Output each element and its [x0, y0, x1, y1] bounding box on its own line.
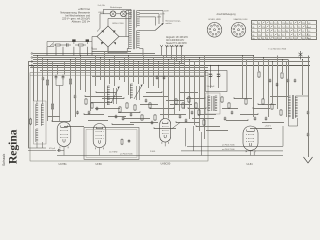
- transformer Tr1 core: [133, 10, 134, 49]
- svg-text:6: 6: [236, 36, 237, 38]
- resistor R11: [175, 98, 177, 105]
- resistor R18: [281, 72, 283, 79]
- svg-text:85: 85: [266, 35, 268, 37]
- resistor R24: [198, 109, 200, 116]
- svg-text:10,7 MHz: 10,7 MHz: [109, 152, 118, 154]
- tube V1 UCH81: [57, 122, 71, 148]
- wire bottom line 3: [57, 154, 283, 156]
- capacitor C29: [128, 139, 131, 143]
- svg-text:P-401: P-401: [150, 151, 156, 153]
- capacitor C12: [151, 121, 154, 125]
- capacitor C30: [57, 149, 62, 152]
- svg-text:170: 170: [282, 23, 285, 25]
- resistor R16: [228, 102, 230, 109]
- wire left risers: [29, 62, 34, 149]
- wire bridge top arm: [108, 19, 131, 27]
- capacitor C2 block: [72, 39, 75, 42]
- svg-text:UL84: UL84: [247, 163, 254, 166]
- svg-text:Us: Us: [252, 31, 254, 33]
- wire Tr1 sec bottom: [139, 49, 143, 56]
- svg-text:an P402 7006: an P402 7006: [222, 149, 235, 151]
- arrow output: [304, 157, 313, 163]
- svg-text:Skala 87,5-100 MHz: Skala 87,5-100 MHz: [166, 43, 188, 45]
- wire bus heater b: [33, 53, 155, 55]
- wire bus aux a: [30, 67, 208, 69]
- resistor R5: [119, 106, 121, 113]
- svg-text:2,1: 2,1: [294, 31, 296, 33]
- svg-text:170: 170: [262, 27, 265, 29]
- resistor R9: [149, 102, 151, 109]
- svg-text:7: 7: [208, 33, 209, 35]
- resistor R12: [182, 102, 184, 109]
- wire bottom tube links: [64, 144, 254, 156]
- wire bus ground: [28, 65, 310, 67]
- svg-text:Abgleich: ZF 468 kHz: Abgleich: ZF 468 kHz: [166, 36, 189, 39]
- tube V3 UABC80: [160, 119, 171, 144]
- wire bridge bottom arm: [107, 47, 109, 54]
- wire feeds to C28: [210, 65, 219, 72]
- wire component row drops: [47, 42, 92, 56]
- svg-text:2,1: 2,1: [278, 31, 280, 33]
- contact row mains terminals: [160, 45, 183, 64]
- table voltages: [252, 21, 317, 41]
- coil L4 bandfilter: [130, 84, 133, 99]
- svg-text:an P401 7006: an P401 7006: [222, 144, 235, 146]
- capacitor C19: [231, 111, 234, 115]
- switch S1 selector contacts: [148, 11, 164, 31]
- svg-text:B250 C100: B250 C100: [113, 23, 125, 25]
- svg-text:Anschlußbelegung: Anschlußbelegung: [216, 13, 236, 16]
- socket view V1: [207, 23, 222, 38]
- capacitor C20: [254, 117, 257, 121]
- tube V4 UL84: [243, 126, 258, 152]
- svg-text:AM 1400/600 kHz: AM 1400/600 kHz: [166, 39, 185, 42]
- socket view V2: [231, 23, 246, 38]
- wire speaker feed: [308, 56, 310, 158]
- svg-text:9: 9: [234, 24, 235, 26]
- svg-text:7,4: 7,4: [282, 31, 284, 33]
- svg-text:225: 225: [258, 35, 261, 37]
- capacitor C7: [96, 107, 99, 111]
- wire bridge right arm: [119, 36, 129, 38]
- resistor R27: [69, 78, 71, 85]
- svg-text:85: 85: [286, 31, 288, 33]
- capacitor C13: [156, 76, 159, 80]
- svg-text:-8: -8: [290, 27, 292, 29]
- wire bus aux b: [40, 70, 208, 72]
- svg-text:an P403 7006: an P403 7006: [120, 154, 133, 156]
- svg-text:-8: -8: [278, 27, 280, 29]
- svg-text:V=: V=: [308, 31, 310, 33]
- svg-text:2,1: 2,1: [298, 27, 300, 29]
- svg-text:5: 5: [240, 36, 241, 38]
- chassis outline: [30, 73, 208, 161]
- transformer IFT1 primary: [208, 96, 210, 111]
- capacitor C22: [287, 79, 290, 83]
- svg-text:Schaub: Schaub: [2, 154, 6, 166]
- capacitor C16: [185, 119, 188, 123]
- switch diagonal at V3: [172, 123, 181, 130]
- svg-text:Regina: Regina: [8, 129, 20, 164]
- variable capacitor C27: [134, 85, 143, 101]
- capacitor C34: [76, 111, 79, 115]
- coil L2 winding: [36, 129, 38, 142]
- wire bus heater a: [92, 51, 131, 53]
- svg-text:Netzspannungs-: Netzspannungs-: [166, 20, 181, 23]
- resistor R3: [85, 98, 87, 105]
- svg-text:7: 7: [232, 33, 233, 35]
- transformer IFT1 core: [212, 96, 213, 111]
- resistor R4: [91, 102, 93, 109]
- svg-text:6,3: 6,3: [302, 38, 304, 40]
- transformer Tr2 primary: [288, 96, 290, 118]
- resistor R21: [280, 109, 282, 116]
- svg-text:4: 4: [220, 33, 221, 35]
- wire bottom line 1: [187, 126, 283, 146]
- resistor R23: [203, 119, 205, 126]
- svg-text:220V: 220V: [164, 10, 169, 12]
- resistor R20: [271, 103, 273, 110]
- resistor R2: [75, 44, 86, 46]
- wire bus AVC: [33, 57, 310, 59]
- wire drops RF section: [38, 52, 303, 140]
- resistor R10: [154, 114, 156, 121]
- resistor R22: [245, 98, 247, 105]
- svg-text:Skalenlampen: Skalenlampen: [110, 7, 122, 9]
- capacitor C6: [88, 111, 91, 115]
- wire C4 C5 join: [56, 79, 63, 121]
- variable capacitor C26: [111, 87, 120, 105]
- capacitor C3 block: [86, 39, 89, 42]
- wire Tr1 tap 127V: [139, 13, 159, 15]
- resistor R25: [121, 139, 123, 146]
- terminal circles bus left ends: [31, 53, 33, 67]
- svg-text:2x 0,1 A: 2x 0,1 A: [98, 4, 106, 7]
- svg-text:2,1: 2,1: [274, 27, 276, 29]
- wire Tr1 sec mid: [139, 30, 148, 32]
- coil box L1: [34, 101, 47, 144]
- junction dots RF: [51, 91, 258, 128]
- svg-text:8: 8: [231, 28, 232, 30]
- resistor R13: [188, 96, 190, 103]
- svg-text:3: 3: [245, 28, 246, 30]
- capacitor C17: [191, 111, 194, 115]
- wire Tr1 primary top lead: [126, 11, 129, 37]
- wire links RF: [48, 93, 289, 131]
- resistor R8: [141, 114, 143, 121]
- coil L1 primary: [36, 104, 38, 126]
- transformer Tr1 secondary II: [137, 31, 140, 49]
- svg-text:UCH81, UF89: UCH81, UF89: [208, 19, 221, 21]
- capacitor C25: [307, 133, 310, 137]
- junction bridge dc out: [107, 53, 108, 54]
- svg-text:0: 0: [294, 27, 295, 29]
- transformer IFT1 box: [206, 93, 221, 114]
- svg-text:1,9: 1,9: [286, 27, 288, 29]
- svg-text:45: 45: [258, 31, 260, 33]
- svg-text:≞ an Klemme 7006: ≞ an Klemme 7006: [268, 48, 287, 51]
- resistor R19: [262, 98, 264, 105]
- svg-text:225: 225: [278, 38, 281, 40]
- svg-text:7,4: 7,4: [286, 38, 288, 40]
- wire V3 component drops: [186, 126, 202, 155]
- svg-text:225: 225: [274, 38, 277, 40]
- capacitor C8: [115, 115, 118, 119]
- svg-text:Uk: Uk: [252, 27, 254, 29]
- svg-text:6,3: 6,3: [270, 23, 272, 25]
- svg-text:2: 2: [242, 24, 243, 26]
- svg-text:3: 3: [221, 28, 222, 30]
- svg-text:UABC80, UL84: UABC80, UL84: [234, 18, 249, 21]
- transformer Tr2 core: [292, 95, 293, 119]
- wire bus B+: [33, 55, 253, 57]
- svg-text:127V: 127V: [160, 14, 165, 16]
- capacitor C15: [179, 115, 182, 119]
- capacitor C35: [42, 77, 45, 81]
- resistor R28: [46, 79, 48, 86]
- svg-text:45: 45: [290, 23, 292, 25]
- svg-text:98: 98: [266, 38, 268, 40]
- capacitor C33: [74, 95, 77, 99]
- coil L1 secondary: [41, 104, 43, 126]
- capacitor C9: [122, 117, 125, 121]
- svg-text:470 pF: 470 pF: [49, 148, 56, 150]
- svg-text:Uk: Uk: [252, 35, 254, 37]
- junction dots on buses: [37, 55, 303, 66]
- svg-text:UF89: UF89: [96, 163, 103, 166]
- svg-text:1: 1: [238, 23, 239, 25]
- svg-text:-8: -8: [270, 35, 272, 37]
- capacitor C24: [307, 111, 310, 115]
- resistor R15: [221, 96, 223, 103]
- svg-text:Ua: Ua: [252, 23, 254, 25]
- svg-text:-8: -8: [302, 31, 304, 33]
- svg-text:2,1: 2,1: [290, 38, 292, 40]
- svg-text:6: 6: [212, 36, 213, 38]
- wire bus cathode: [28, 61, 310, 63]
- tube V2 UF89: [93, 124, 106, 150]
- capacitor C23: [294, 79, 297, 83]
- wire bridge left arm: [92, 29, 100, 50]
- svg-text:7,4: 7,4: [282, 27, 284, 29]
- capacitor C28 electrolytic block: [206, 71, 228, 92]
- capacitor C31: [276, 83, 279, 87]
- lamp La2: [121, 11, 127, 17]
- svg-text:1,9: 1,9: [302, 35, 304, 37]
- wire coil leads: [28, 101, 46, 148]
- svg-text:8: 8: [207, 28, 208, 30]
- resistor R17: [258, 71, 260, 78]
- svg-text:7,4: 7,4: [274, 23, 276, 25]
- capacitor C32: [269, 79, 272, 83]
- svg-text:50+50µF: 50+50µF: [207, 86, 215, 88]
- svg-text:9: 9: [210, 24, 211, 26]
- capacitor C1: [63, 43, 71, 46]
- note power annotation: [60, 8, 90, 23]
- wire C30 to ground line: [28, 149, 64, 151]
- svg-text:85: 85: [278, 35, 280, 37]
- resistor R1: [53, 44, 64, 46]
- antenna symbol: [299, 51, 303, 60]
- capacitor C10: [130, 113, 133, 117]
- resistor R7: [134, 104, 136, 111]
- wire Tr1 primary bottom lead: [108, 47, 129, 53]
- svg-text:225: 225: [294, 38, 297, 40]
- capacitor C4: [55, 75, 58, 80]
- rectifier Gr1 bridge: [97, 26, 119, 47]
- wire R26 lead: [52, 110, 54, 121]
- transformer Tr2 secondary: [295, 96, 297, 118]
- svg-text:0: 0: [278, 23, 279, 25]
- wire Tr1 tap 110V: [139, 16, 155, 18]
- wire Tr2 leads: [288, 60, 308, 127]
- svg-text:+205 V: +205 V: [265, 125, 272, 127]
- wire lamp to bridge: [100, 14, 104, 29]
- resistor R26: [51, 103, 53, 110]
- shield box V2: [84, 128, 139, 160]
- resistor R29: [29, 118, 31, 125]
- svg-text:225: 225: [302, 23, 305, 25]
- capacitor C14: [163, 76, 166, 80]
- note alignment instructions: [166, 36, 189, 48]
- capacitor C18: [224, 117, 227, 121]
- wire lamp top rail: [104, 9, 132, 18]
- transformer Tr1 primary winding: [129, 11, 132, 49]
- svg-text:2: 2: [218, 24, 219, 26]
- svg-text:1: 1: [214, 23, 215, 25]
- svg-text:2,1: 2,1: [282, 35, 284, 37]
- coil L3 oscillator: [107, 86, 110, 105]
- wire bus AF: [33, 63, 185, 65]
- wire Tr1 tap 220V: [139, 10, 163, 12]
- transformer IFT1 secondary: [215, 96, 217, 111]
- capacitor C5: [62, 75, 65, 80]
- svg-text:Allstrom: 220 V=: Allstrom: 220 V=: [72, 21, 91, 24]
- svg-text:45: 45: [258, 38, 260, 40]
- wire bottom line 2: [181, 150, 283, 152]
- svg-text:-8: -8: [294, 35, 296, 37]
- wire bus screen: [33, 59, 288, 61]
- svg-text:45: 45: [258, 23, 260, 25]
- wire lamps series link: [104, 13, 132, 15]
- capacitor C21: [265, 117, 268, 121]
- svg-text:Ug: Ug: [252, 38, 254, 40]
- lamp La1: [110, 11, 116, 17]
- svg-text:UABC80: UABC80: [161, 163, 171, 166]
- svg-text:0,6: 0,6: [286, 23, 288, 25]
- svg-text:-8: -8: [274, 31, 276, 33]
- resistor R6: [126, 102, 128, 109]
- resistor R14: [195, 102, 197, 109]
- svg-text:4: 4: [244, 33, 245, 35]
- switch S2 tone: [47, 43, 54, 47]
- svg-text:wähler: wähler: [166, 22, 172, 25]
- svg-text:UCH81: UCH81: [59, 163, 68, 166]
- wire long link above coils: [92, 76, 205, 78]
- transformer Tr1 secondary I: [137, 11, 140, 28]
- capacitor C11: [145, 99, 148, 103]
- svg-text:45: 45: [262, 38, 264, 40]
- svg-text:5: 5: [216, 36, 217, 38]
